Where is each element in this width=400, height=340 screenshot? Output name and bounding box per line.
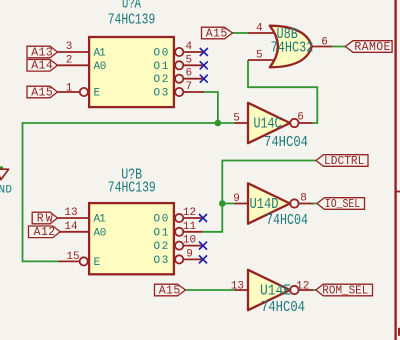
svg-text:A1: A1	[94, 48, 107, 60]
wire stub to ground	[0, 166, 3, 169]
svg-text:E: E	[94, 88, 101, 100]
svg-text:O3: O3	[154, 255, 169, 267]
svg-text:U14D: U14D	[250, 196, 279, 213]
svg-text:5: 5	[233, 113, 240, 125]
wire U14D output to IO_SEL label	[313, 203, 317, 205]
svg-text:O3: O3	[154, 88, 169, 100]
svg-text:U14E: U14E	[260, 283, 291, 300]
svg-text:2: 2	[66, 54, 73, 66]
global label A15 (to U?A E)	[27, 86, 58, 99]
svg-text:12: 12	[183, 207, 196, 219]
svg-text:A15: A15	[159, 284, 181, 297]
global label A14	[27, 60, 58, 73]
svg-text:6: 6	[321, 37, 328, 49]
svg-text:A15: A15	[206, 27, 228, 40]
svg-text:O2: O2	[154, 241, 169, 253]
wire U?B O1 output up to LDCTRL label	[203, 161, 317, 232]
no-connect X on U?B pin 10	[199, 242, 207, 250]
svg-text:IO_SEL: IO_SEL	[325, 198, 360, 211]
global label RAMOE	[345, 41, 392, 54]
sheet frame row tick	[396, 191, 400, 193]
global label LDCTRL	[316, 155, 368, 168]
svg-text:A15: A15	[31, 86, 53, 99]
svg-text:10: 10	[183, 235, 196, 247]
svg-text:7: 7	[185, 81, 192, 93]
no-connect X on U?B pin 12	[199, 214, 207, 222]
svg-text:5: 5	[256, 50, 263, 62]
decoder U?A 74HC139	[58, 0, 205, 107]
wire junction J2 to U14D input	[222, 203, 235, 205]
wire A15 label to U8B pin 4	[233, 32, 249, 34]
svg-text:3: 3	[66, 41, 73, 53]
junction J1 on O3 net	[215, 120, 222, 127]
global label A15 (to U8B pin 4)	[202, 27, 233, 40]
ground	[0, 169, 12, 196]
inverter U14C 74HC04	[233, 103, 312, 151]
inverter U14D 74HC04	[233, 183, 313, 229]
svg-text:A0: A0	[94, 227, 107, 239]
svg-text:74HC04: 74HC04	[266, 212, 308, 229]
svg-text:13: 13	[64, 207, 77, 219]
wire U14E output to ROM_SEL label	[313, 289, 316, 291]
svg-text:74HC04: 74HC04	[261, 299, 305, 316]
svg-text:5: 5	[185, 54, 192, 66]
svg-text:74HC139: 74HC139	[108, 11, 156, 28]
svg-text:O0: O0	[154, 214, 169, 226]
svg-text:6: 6	[185, 68, 192, 80]
svg-text:A13: A13	[31, 46, 53, 59]
sheet border frame line	[394, 0, 396, 340]
svg-text:74HC139: 74HC139	[108, 180, 156, 197]
svg-text:A12: A12	[34, 226, 56, 239]
svg-text:6: 6	[297, 112, 304, 124]
inverter U14E 74HC04	[231, 270, 313, 316]
svg-text:1: 1	[66, 82, 73, 94]
wire U8B output to RAMOE label	[332, 46, 345, 48]
wire U14C output to U8B pin 5	[248, 60, 317, 123]
global label IO_SEL	[317, 198, 365, 211]
svg-text:A14: A14	[31, 60, 53, 73]
svg-text:A1: A1	[94, 214, 107, 226]
global label A13	[27, 46, 58, 59]
wire junction J1 to U14C input	[218, 122, 235, 124]
svg-text:9: 9	[233, 193, 240, 205]
or-gate U8B 74HC32	[248, 23, 332, 68]
decoder U?B 74HC139	[58, 167, 203, 275]
svg-text:E: E	[94, 257, 101, 269]
wire U?A O3 output to junction	[204, 92, 218, 123]
svg-text:74HC04: 74HC04	[264, 134, 308, 151]
svg-text:O2: O2	[154, 74, 169, 86]
svg-text:11: 11	[183, 221, 197, 233]
svg-text:15: 15	[66, 251, 79, 263]
svg-text:U14C: U14C	[254, 116, 282, 133]
no-connect X on U?A pin 5	[200, 61, 208, 69]
svg-text:RAMOE: RAMOE	[354, 41, 390, 54]
svg-text:LDCTRL: LDCTRL	[324, 155, 364, 168]
svg-text:14: 14	[64, 221, 78, 233]
svg-text:GND: GND	[0, 185, 12, 197]
svg-text:ROM_SEL: ROM_SEL	[322, 285, 368, 298]
wire junction J1 to U?B enable pin 15	[23, 123, 218, 261]
svg-text:O0: O0	[154, 48, 169, 60]
svg-text:4: 4	[256, 23, 263, 35]
global label A15 (to U14E)	[155, 284, 186, 297]
svg-text:O1: O1	[154, 227, 169, 239]
svg-text:8: 8	[300, 193, 307, 205]
svg-text:O1: O1	[154, 61, 169, 73]
svg-text:12: 12	[296, 280, 309, 292]
no-connect X on U?A pin 4	[200, 48, 208, 56]
no-connect X on U?A pin 6	[200, 75, 208, 83]
svg-text:9: 9	[186, 248, 193, 260]
sheet frame glyph (clipped at edge)	[398, 328, 400, 336]
global label RW	[32, 212, 57, 225]
junction J2 on O1 net	[219, 200, 226, 207]
global label ROM_SEL	[316, 284, 373, 297]
svg-text:74HC32: 74HC32	[271, 39, 314, 56]
svg-text:4: 4	[185, 41, 192, 53]
no-connect X on U?B pin 9	[199, 255, 207, 263]
svg-text:13: 13	[231, 280, 244, 292]
svg-text:A0: A0	[94, 61, 107, 73]
wire A15 label to U14E input	[186, 289, 236, 291]
global label A12	[29, 226, 61, 239]
